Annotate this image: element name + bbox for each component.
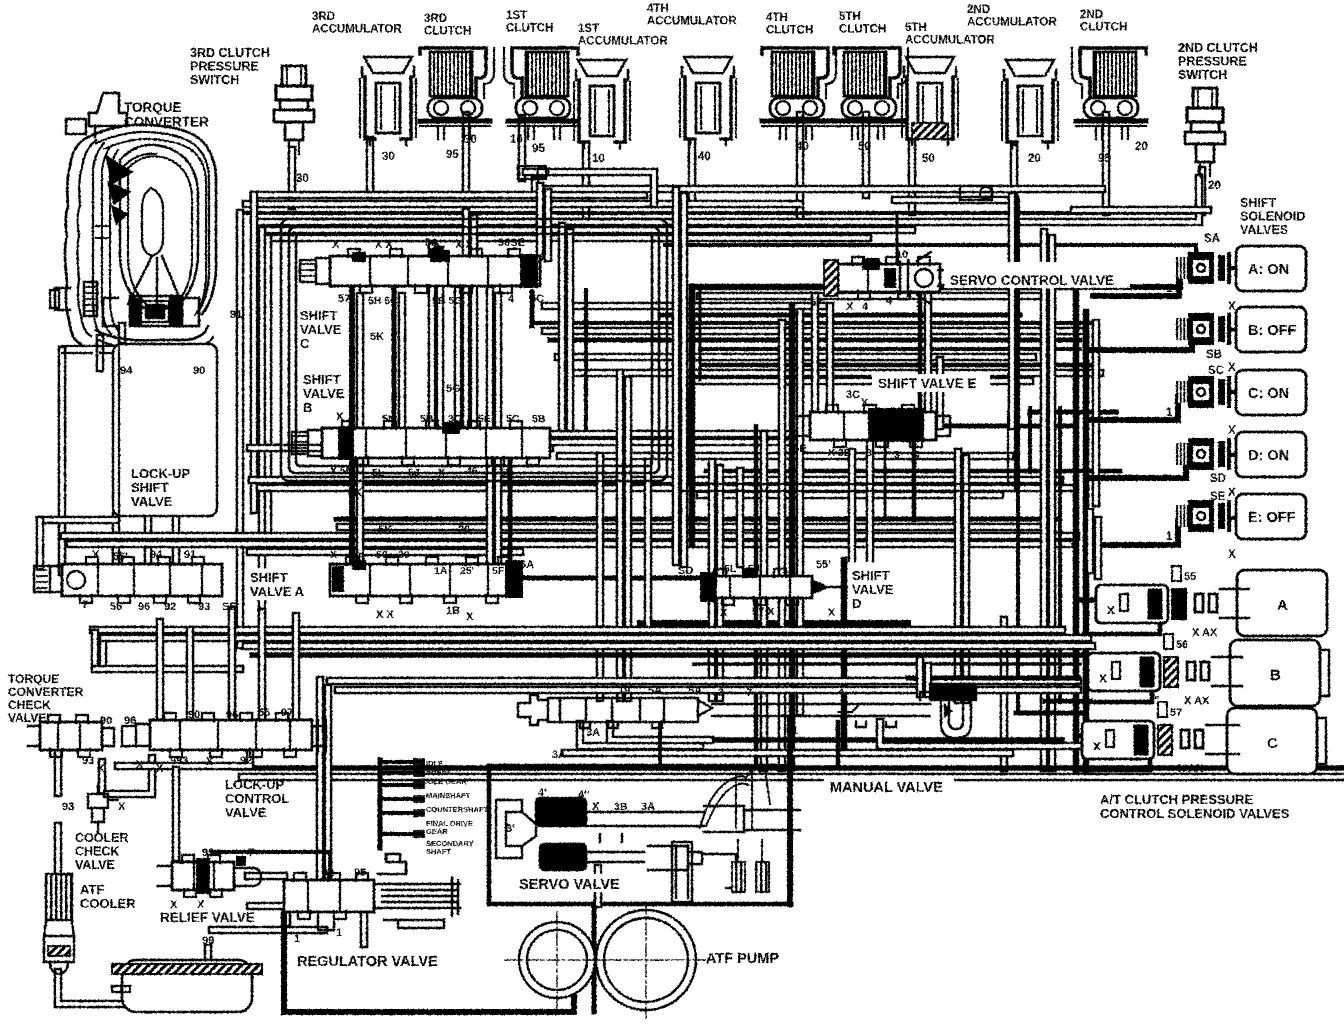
wire bbox=[264, 238, 273, 548]
svg-text:90: 90 bbox=[188, 709, 200, 721]
svg-text:3B: 3B bbox=[614, 801, 628, 813]
svg-text:VALVE: VALVE bbox=[300, 322, 342, 337]
svg-text:30: 30 bbox=[398, 549, 410, 561]
wire bbox=[1058, 408, 1062, 702]
svg-text:X: X bbox=[156, 763, 164, 775]
wire bbox=[558, 226, 567, 428]
wire bbox=[1229, 266, 1237, 270]
wire bbox=[699, 290, 702, 380]
svg-text:TORQUE: TORQUE bbox=[8, 672, 59, 686]
svg-text:4″: 4″ bbox=[578, 789, 590, 801]
svg-text:VALVE: VALVE bbox=[131, 494, 173, 509]
svg-text:95: 95 bbox=[1098, 153, 1111, 165]
label 3rd accumulator bbox=[312, 11, 402, 36]
shift solenoid valve E bbox=[1166, 494, 1306, 561]
wire bbox=[70, 540, 1070, 549]
svg-text:VALVES: VALVES bbox=[1240, 223, 1288, 237]
wire bbox=[688, 142, 697, 202]
accumulator 5th bbox=[902, 57, 958, 165]
wire bbox=[489, 764, 790, 769]
svg-text:C: ON: C: ON bbox=[1248, 386, 1289, 402]
shift solenoid valve C bbox=[1166, 370, 1306, 437]
wire bbox=[848, 452, 857, 562]
wire bbox=[58, 972, 122, 1004]
svg-text:RELIEF VALVE: RELIEF VALVE bbox=[160, 910, 255, 925]
shift solenoid valve B bbox=[1176, 307, 1306, 374]
clutch 1st bbox=[504, 48, 578, 155]
wire bbox=[262, 226, 912, 235]
svg-text:93: 93 bbox=[82, 755, 94, 767]
svg-text:20: 20 bbox=[1135, 141, 1148, 153]
label 3rd clutch pressure switch bbox=[190, 46, 270, 87]
wire bbox=[156, 622, 165, 722]
wire bbox=[54, 826, 63, 874]
oil pan strainer bbox=[112, 960, 262, 1012]
wire bbox=[118, 748, 250, 766]
svg-text:95: 95 bbox=[532, 143, 545, 155]
svg-text:90: 90 bbox=[100, 715, 112, 727]
svg-text:91: 91 bbox=[230, 309, 242, 321]
servo valve assembly bbox=[496, 798, 800, 902]
wire bbox=[866, 440, 875, 562]
svg-text:X: X bbox=[332, 239, 340, 251]
svg-text:7: 7 bbox=[248, 847, 254, 859]
svg-text:3RD: 3RD bbox=[312, 11, 335, 23]
wire bbox=[336, 517, 1058, 522]
svg-text:1: 1 bbox=[1166, 283, 1173, 295]
svg-text:VALVE: VALVE bbox=[225, 805, 267, 820]
wire bbox=[1016, 711, 1084, 716]
wire bbox=[908, 142, 917, 212]
label relief valve bbox=[160, 910, 255, 925]
svg-text:2ND: 2ND bbox=[967, 4, 990, 16]
svg-text:1: 1 bbox=[294, 933, 300, 945]
wire bbox=[658, 724, 662, 768]
labels shift valve C ports top bbox=[332, 237, 525, 251]
wire bbox=[580, 724, 700, 746]
svg-text:30: 30 bbox=[464, 134, 477, 146]
wire bbox=[288, 150, 297, 206]
svg-text:5B: 5B bbox=[532, 413, 546, 425]
wire bbox=[487, 766, 492, 904]
torque converter check valve bbox=[28, 715, 114, 757]
svg-text:5N: 5N bbox=[382, 413, 395, 425]
svg-text:91: 91 bbox=[184, 549, 196, 561]
svg-text:X: X bbox=[136, 759, 144, 771]
wire bbox=[254, 191, 644, 200]
wire bbox=[284, 912, 574, 1012]
svg-text:46: 46 bbox=[466, 465, 478, 477]
svg-text:X 5N: X 5N bbox=[330, 465, 353, 477]
wire bbox=[796, 115, 805, 230]
wire bbox=[536, 186, 545, 256]
svg-text:7: 7 bbox=[746, 687, 752, 699]
shift valve C bbox=[300, 249, 540, 293]
wire bbox=[1084, 689, 1152, 702]
wire bbox=[924, 296, 933, 420]
wire bbox=[489, 902, 790, 907]
wire bbox=[462, 115, 471, 212]
wire bbox=[508, 462, 513, 564]
wire bbox=[1090, 336, 1192, 350]
wire bbox=[236, 213, 245, 645]
svg-text:5K: 5K bbox=[348, 487, 362, 499]
wire bbox=[526, 172, 654, 204]
svg-text:96: 96 bbox=[124, 715, 136, 727]
svg-text:1: 1 bbox=[1156, 627, 1162, 639]
wire bbox=[534, 321, 1090, 325]
wire bbox=[896, 214, 899, 264]
labels manual valve bbox=[552, 685, 845, 761]
wire bbox=[884, 440, 887, 520]
svg-text:SWITCH: SWITCH bbox=[190, 73, 239, 87]
svg-text:CONVERTER: CONVERTER bbox=[124, 115, 209, 130]
wire bbox=[1194, 245, 1198, 267]
lock-up shift valve box bbox=[113, 344, 217, 516]
wire bbox=[260, 484, 1072, 493]
wire bbox=[644, 462, 653, 642]
svg-text:40: 40 bbox=[796, 141, 809, 153]
wire bbox=[1076, 597, 1098, 603]
wire bbox=[811, 296, 820, 420]
svg-text:3RD: 3RD bbox=[424, 13, 447, 25]
svg-text:COUNTERSHAFT: COUNTERSHAFT bbox=[426, 805, 488, 814]
svg-text:PRESSURE: PRESSURE bbox=[190, 60, 259, 74]
servo control valve bbox=[824, 252, 946, 304]
label 4th clutch bbox=[766, 12, 813, 37]
svg-text:x: x bbox=[1107, 601, 1115, 617]
svg-text:LOCK-UP: LOCK-UP bbox=[225, 777, 285, 792]
accumulator 4th bbox=[680, 57, 736, 163]
frame around shift valves B and C bbox=[281, 219, 667, 481]
svg-text:MAINSHAFT: MAINSHAFT bbox=[426, 791, 471, 800]
label torque converter bbox=[124, 100, 209, 130]
svg-text:SE: SE bbox=[222, 601, 237, 613]
svg-text:99: 99 bbox=[202, 935, 214, 947]
wire bbox=[1040, 232, 1049, 768]
gear shaft stub lines bbox=[380, 759, 488, 856]
svg-text:B: B bbox=[303, 400, 312, 415]
wire bbox=[360, 914, 369, 944]
label ATF pump bbox=[706, 951, 779, 967]
wire bbox=[544, 192, 553, 258]
wire bbox=[95, 665, 240, 674]
wire bbox=[228, 610, 237, 722]
svg-text:10: 10 bbox=[510, 134, 523, 146]
wire bbox=[700, 292, 1050, 301]
svg-text:5B: 5B bbox=[420, 413, 434, 425]
wire bbox=[692, 284, 1076, 291]
label 1st accumulator bbox=[578, 23, 668, 48]
wire bbox=[594, 868, 603, 904]
svg-text:CLUTCH: CLUTCH bbox=[506, 23, 553, 35]
svg-text:4TH: 4TH bbox=[766, 12, 788, 24]
wire bbox=[212, 926, 324, 935]
wire bbox=[1093, 272, 1179, 296]
label 99 bbox=[202, 935, 214, 947]
svg-text:55: 55 bbox=[258, 707, 270, 719]
label 2nd clutch bbox=[1080, 9, 1127, 34]
svg-text:94: 94 bbox=[150, 549, 163, 561]
wire bbox=[936, 424, 1076, 429]
labels shift valve C ports bottom bbox=[338, 293, 544, 307]
wire bbox=[558, 353, 1033, 362]
wire bbox=[702, 363, 1090, 368]
shift valve E bbox=[796, 405, 950, 447]
wire bbox=[1094, 520, 1103, 576]
svg-text:1: 1 bbox=[790, 603, 796, 615]
svg-text:CHECK: CHECK bbox=[8, 698, 51, 712]
wire bbox=[690, 377, 1030, 386]
control solenoid valve B bbox=[1088, 634, 1329, 707]
wire bbox=[1074, 206, 1208, 215]
svg-text:X: X bbox=[92, 549, 100, 561]
servo valve detent bbox=[700, 768, 770, 892]
wire bbox=[428, 246, 437, 430]
wire bbox=[584, 290, 588, 428]
wire bbox=[754, 426, 759, 768]
shift solenoid valve A bbox=[1166, 246, 1306, 313]
wire bbox=[1016, 200, 1020, 712]
junction fitting 92 bbox=[960, 186, 992, 200]
svg-text:5TH: 5TH bbox=[905, 22, 927, 34]
clutch 2nd bbox=[1072, 48, 1148, 165]
label shift valve A bbox=[246, 568, 318, 600]
wire bbox=[250, 902, 284, 911]
label 5th clutch bbox=[839, 11, 886, 36]
svg-text:50: 50 bbox=[376, 549, 388, 561]
label 5G bbox=[446, 383, 461, 395]
wire bbox=[186, 630, 195, 722]
wire bbox=[962, 458, 971, 700]
svg-text:x: x bbox=[1099, 669, 1107, 685]
svg-text:SC: SC bbox=[1208, 365, 1224, 377]
wire bbox=[706, 469, 1120, 474]
wire bbox=[1084, 621, 1160, 634]
svg-text:X: X bbox=[1228, 487, 1236, 499]
wire bbox=[1028, 408, 1032, 472]
svg-text:3A: 3A bbox=[552, 749, 566, 761]
svg-text:3': 3' bbox=[506, 823, 515, 835]
svg-text:B: B bbox=[1270, 667, 1281, 684]
svg-text:3C: 3C bbox=[846, 389, 860, 401]
ATF pump bbox=[505, 902, 714, 1018]
wire bbox=[324, 688, 333, 884]
wire bbox=[736, 471, 745, 564]
wire bbox=[40, 516, 116, 525]
wire bbox=[1083, 312, 1090, 770]
wire bbox=[694, 662, 1080, 666]
svg-text:5E: 5E bbox=[478, 413, 491, 425]
wire bbox=[565, 369, 1100, 378]
svg-text:VALVE: VALVE bbox=[75, 858, 115, 872]
svg-text:5C: 5C bbox=[506, 413, 520, 425]
svg-text:SHIFT: SHIFT bbox=[303, 372, 341, 387]
svg-text:VALVE: VALVE bbox=[303, 386, 345, 401]
label torque converter check valve bbox=[8, 672, 84, 725]
label shift solenoid valves bbox=[1240, 196, 1305, 237]
svg-text:X: X bbox=[828, 607, 836, 619]
wire bbox=[1045, 699, 1090, 704]
label shift valve D bbox=[848, 562, 926, 612]
svg-text:20: 20 bbox=[1208, 180, 1221, 192]
svg-text:5C: 5C bbox=[530, 293, 544, 305]
lock-up control valve bbox=[122, 713, 326, 757]
wire bbox=[565, 749, 1010, 758]
svg-text:SHAFT: SHAFT bbox=[426, 847, 451, 856]
wire bbox=[366, 140, 375, 195]
accumulator 3rd bbox=[360, 57, 416, 163]
svg-text:1A: 1A bbox=[434, 565, 448, 577]
svg-text:GEAR: GEAR bbox=[426, 827, 448, 836]
svg-text:57: 57 bbox=[1170, 707, 1182, 719]
svg-text:57: 57 bbox=[338, 293, 350, 305]
wire bbox=[624, 380, 633, 698]
svg-text:3: 3 bbox=[916, 299, 922, 311]
label cooler check valve bbox=[75, 831, 128, 872]
svg-text:5F: 5F bbox=[492, 565, 505, 577]
accumulator 1st bbox=[574, 60, 630, 165]
wire bbox=[172, 770, 181, 858]
svg-text:X 3B: X 3B bbox=[828, 447, 852, 459]
svg-text:X AX: X AX bbox=[1184, 695, 1210, 707]
svg-text:X: X bbox=[592, 801, 600, 813]
svg-text:5J: 5J bbox=[748, 563, 760, 575]
svg-text:50: 50 bbox=[858, 141, 871, 153]
svg-text:ATF PUMP: ATF PUMP bbox=[706, 951, 779, 967]
svg-text:SOLENOID: SOLENOID bbox=[1240, 210, 1305, 224]
svg-text:IDLE GEAR: IDLE GEAR bbox=[426, 777, 467, 786]
label 1st clutch bbox=[506, 10, 553, 35]
wire bbox=[836, 722, 841, 768]
svg-text:B: OFF: B: OFF bbox=[1248, 323, 1296, 339]
svg-text:4: 4 bbox=[838, 687, 845, 699]
svg-text:A: ON: A: ON bbox=[1248, 262, 1289, 278]
wire bbox=[118, 326, 127, 340]
shift valve B bbox=[292, 421, 550, 465]
svg-text:PRESSURE: PRESSURE bbox=[1178, 55, 1247, 69]
wire bbox=[936, 360, 945, 426]
wire bbox=[250, 548, 520, 557]
wire bbox=[64, 532, 1076, 541]
svg-text:X X: X X bbox=[375, 239, 393, 251]
wire bbox=[340, 523, 1050, 532]
svg-text:1A: 1A bbox=[782, 564, 796, 576]
svg-text:VALVE: VALVE bbox=[852, 582, 894, 597]
label servo valve bbox=[514, 874, 626, 892]
wire bbox=[258, 612, 267, 722]
wire bbox=[708, 462, 717, 698]
svg-text:E: OFF: E: OFF bbox=[1248, 510, 1296, 526]
wire bbox=[550, 338, 1080, 343]
wire bbox=[789, 306, 796, 768]
svg-text:ACCUMULATOR: ACCUMULATOR bbox=[905, 35, 995, 47]
wire bbox=[462, 212, 471, 424]
wire bbox=[1076, 733, 1090, 739]
svg-text:SHIFT: SHIFT bbox=[852, 568, 890, 583]
shift valve A right section bbox=[330, 557, 523, 603]
wire bbox=[470, 218, 479, 426]
svg-text:4: 4 bbox=[914, 449, 920, 461]
wire bbox=[268, 234, 868, 243]
svg-text:1: 1 bbox=[792, 725, 798, 737]
svg-text:CLUTCH: CLUTCH bbox=[766, 25, 813, 37]
wire bbox=[954, 452, 963, 700]
svg-text:CLUTCH: CLUTCH bbox=[839, 24, 886, 36]
svg-text:COOLER: COOLER bbox=[80, 896, 136, 911]
wire bbox=[711, 602, 717, 658]
label ATF cooler bbox=[80, 882, 136, 911]
svg-text:1: 1 bbox=[1166, 407, 1173, 419]
svg-text:3A: 3A bbox=[641, 801, 655, 813]
svg-text:SHIFT: SHIFT bbox=[131, 480, 169, 495]
wire bbox=[54, 748, 63, 793]
svg-text:50: 50 bbox=[922, 153, 935, 165]
label regulator valve bbox=[292, 950, 444, 970]
wire bbox=[112, 516, 121, 566]
labels servo control valve ports bbox=[810, 249, 922, 313]
svg-text:ACCUMULATOR: ACCUMULATOR bbox=[647, 16, 737, 28]
wire bbox=[246, 200, 800, 209]
labels shift valve B ports bottom bbox=[330, 465, 513, 489]
label A/T clutch pressure control solenoid valves bbox=[1100, 792, 1290, 821]
svg-text:3: 3 bbox=[718, 687, 724, 699]
svg-text:ACCUMULATOR: ACCUMULATOR bbox=[312, 24, 402, 36]
svg-text:X: X bbox=[720, 607, 728, 619]
wire bbox=[523, 576, 702, 581]
wire bbox=[787, 720, 793, 904]
wire bbox=[252, 652, 1098, 658]
svg-text:4': 4' bbox=[538, 787, 547, 799]
shift valve A left section bbox=[34, 557, 222, 603]
svg-text:CONTROL SOLENOID VALVES: CONTROL SOLENOID VALVES bbox=[1100, 806, 1290, 821]
wire bbox=[862, 115, 871, 195]
wire bbox=[560, 452, 1010, 461]
svg-text:56: 56 bbox=[1176, 639, 1188, 651]
label SB bbox=[1206, 349, 1222, 361]
svg-text:X: X bbox=[330, 549, 337, 561]
svg-text:SD: SD bbox=[1210, 473, 1226, 485]
svg-text:3C: 3C bbox=[448, 413, 462, 425]
label 5K bbox=[348, 331, 384, 499]
wire bbox=[212, 852, 330, 878]
wire bbox=[58, 350, 67, 572]
svg-text:2ND: 2ND bbox=[1080, 9, 1103, 21]
svg-text:56: 56 bbox=[110, 601, 122, 613]
wire bbox=[1229, 516, 1237, 520]
svg-text:X X: X X bbox=[376, 609, 394, 621]
svg-text:5K: 5K bbox=[378, 524, 392, 536]
svg-text:19: 19 bbox=[430, 477, 442, 489]
wire bbox=[356, 296, 365, 564]
svg-text:4: 4 bbox=[886, 295, 893, 307]
wire bbox=[250, 195, 259, 510]
wire bbox=[254, 178, 1199, 222]
clutch 5th bbox=[834, 48, 908, 153]
wire bbox=[172, 512, 181, 566]
wire bbox=[592, 904, 597, 1012]
svg-text:5A: 5A bbox=[688, 685, 702, 697]
shift valve D bbox=[700, 566, 886, 605]
wire bbox=[760, 434, 769, 768]
wire bbox=[292, 616, 301, 722]
labels relief valve bbox=[170, 847, 254, 911]
wire bbox=[316, 680, 325, 882]
label shift valve E bbox=[872, 374, 990, 392]
wire bbox=[912, 440, 917, 520]
wire bbox=[93, 626, 1062, 635]
wire bbox=[689, 287, 696, 545]
